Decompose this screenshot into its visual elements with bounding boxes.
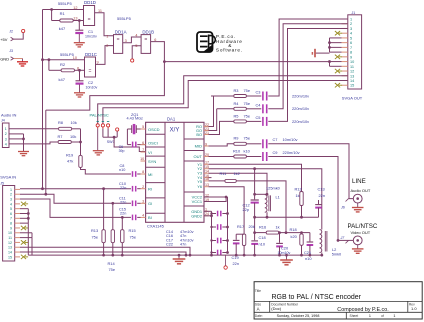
- wire VCC rows to cap rail: [204, 196, 228, 198]
- svg-text:BO: BO: [196, 132, 202, 137]
- inductor L2: [320, 230, 322, 253]
- svg-text:R14: R14: [108, 261, 116, 266]
- svg-text:10: 10: [140, 157, 144, 161]
- wire second vertical rail down to G row: [45, 110, 47, 194]
- svg-text:10: 10: [350, 60, 354, 64]
- capacitor C19: [236, 233, 244, 235]
- svg-text:220m/10v: 220m/10v: [283, 150, 300, 155]
- wire L2 bottom to ground rail: [321, 253, 323, 256]
- svg-text:2: 2: [350, 22, 352, 26]
- svg-text:4: 4: [350, 32, 352, 36]
- svg-text:5: 5: [10, 207, 12, 211]
- svg-text:14: 14: [350, 79, 354, 83]
- wire C7 to J6 audio out: [268, 144, 353, 199]
- svg-text:n10: n10: [305, 256, 312, 261]
- wire RO riser to R3 row: [209, 96, 214, 127]
- svg-text:RGB to PAL / NTSC encoder: RGB to PAL / NTSC encoder: [272, 294, 362, 301]
- svg-text:21: 21: [205, 131, 209, 135]
- svg-text:J4: J4: [1, 118, 5, 122]
- svg-text:1: 1: [10, 188, 12, 192]
- svg-text:R3: R3: [234, 88, 239, 93]
- wire Y3 to tank top: [209, 173, 268, 194]
- svg-text:Sheet: Sheet: [350, 314, 359, 318]
- J1 pin 5: [342, 37, 348, 39]
- svg-text:15: 15: [205, 165, 209, 169]
- J5 pin 4: [15, 203, 20, 205]
- svg-text:125mk0: 125mk0: [266, 185, 281, 190]
- wire J1 pin3 to C5 output: [268, 28, 348, 121]
- capacitor C12 tank: [254, 169, 256, 200]
- svg-text:4: 4: [142, 214, 144, 218]
- wire R4 row from riser: [217, 108, 234, 110]
- svg-text:1: 1: [393, 314, 395, 318]
- svg-text:Audio IN: Audio IN: [1, 112, 16, 117]
- tank bottom node row: [255, 216, 319, 218]
- svg-text:VCC1: VCC1: [192, 199, 202, 204]
- no-connect X on J1 pins 4 9 12 15: [335, 31, 340, 35]
- svg-text:R7: R7: [58, 134, 63, 139]
- svg-text:J3: J3: [9, 49, 13, 53]
- svg-text:GND: GND: [0, 56, 9, 61]
- wire Y2 to tank and L2: [209, 169, 322, 230]
- svg-text:PAL/NTSC: PAL/NTSC: [90, 113, 109, 118]
- bracket J1 pins 5-8: [329, 38, 331, 52]
- J5 pin 11: [15, 237, 20, 239]
- svg-text:R15: R15: [129, 228, 136, 233]
- svg-text:8: 8: [350, 51, 352, 55]
- svg-text:J6: J6: [340, 206, 345, 210]
- wire SW1 to VI pin: [114, 137, 146, 151]
- svg-text:J5: J5: [0, 181, 4, 185]
- svg-text:R10: R10: [233, 148, 241, 153]
- svg-text:5mk0: 5mk0: [332, 252, 342, 257]
- J5 pin 8: [15, 222, 20, 224]
- svg-text:Date:: Date:: [255, 314, 263, 318]
- svg-text:3: 3: [142, 200, 144, 204]
- J1 pin 3: [342, 27, 348, 29]
- svg-text:J2: J2: [9, 30, 13, 34]
- svg-text:L1: L1: [276, 195, 280, 200]
- svg-text:Software.: Software.: [216, 47, 243, 52]
- svg-text:5: 5: [135, 44, 137, 48]
- svg-text:7: 7: [142, 148, 144, 152]
- wire from DD1B.6 to J1 pins 10-11 bracket: [164, 61, 329, 63]
- svg-text:9: 9: [205, 142, 207, 146]
- svg-text:C7: C7: [273, 137, 278, 142]
- svg-text:22n: 22n: [120, 186, 126, 190]
- svg-text:C13: C13: [318, 186, 325, 191]
- wire Y1 to R12: [209, 164, 302, 191]
- svg-text:GND2: GND2: [191, 214, 202, 219]
- J1 pin 14: [342, 79, 348, 81]
- svg-text:C2: C2: [88, 80, 94, 85]
- svg-text:BI: BI: [148, 215, 152, 220]
- IC right pin numbers and stubs: [204, 126, 209, 128]
- svg-text:MI: MI: [148, 172, 152, 177]
- svg-text:+5V: +5V: [0, 37, 8, 42]
- pin 5 wire with open terminal: [132, 46, 141, 59]
- wire J4 pin1 to R8: [9, 128, 58, 130]
- svg-text:220m/10v: 220m/10v: [292, 119, 309, 124]
- svg-text:75e: 75e: [130, 234, 137, 239]
- J5 pin 9: [15, 227, 20, 229]
- svg-text:1: 1: [369, 314, 371, 318]
- svg-text:4: 4: [10, 202, 12, 206]
- svg-text:9: 9: [350, 55, 352, 59]
- svg-text:1k2: 1k2: [234, 171, 240, 176]
- svg-text:R12: R12: [295, 186, 302, 191]
- svg-text:10m/10v: 10m/10v: [283, 137, 298, 142]
- svg-text:SYN: SYN: [148, 159, 156, 164]
- svg-text:20: 20: [205, 153, 209, 157]
- J1 pin 6: [342, 42, 348, 44]
- wire J4 pin4 to R7: [9, 142, 58, 144]
- svg-text:6: 6: [154, 38, 156, 42]
- capacitor C18: [254, 233, 256, 241]
- svg-text:2: 2: [5, 132, 7, 136]
- svg-text:GI: GI: [148, 201, 152, 206]
- svg-text:R4: R4: [234, 101, 240, 106]
- svg-text:10: 10: [8, 231, 12, 235]
- svg-text:C18: C18: [259, 235, 266, 240]
- wire R3 row from riser: [211, 95, 234, 97]
- ground under C2: [79, 85, 81, 93]
- svg-text:5: 5: [142, 125, 144, 129]
- svg-text:LINE: LINE: [352, 178, 366, 185]
- ground symbol at J3: [22, 59, 24, 62]
- ground under J7: [357, 245, 359, 249]
- svg-text:3: 3: [5, 137, 7, 141]
- svg-text:C1: C1: [88, 29, 94, 34]
- pin 9 wire from DD1C to DD1A pin 2: [96, 46, 114, 65]
- svg-text:7: 7: [10, 217, 12, 221]
- svg-text:1k: 1k: [276, 225, 280, 230]
- wire GO riser to R4 row: [209, 109, 217, 131]
- svg-text:k47: k47: [59, 26, 66, 31]
- wire crystal to OSCD: [136, 128, 146, 130]
- J5 pin 10: [15, 232, 20, 234]
- svg-text:10k: 10k: [71, 120, 77, 125]
- J1 pin 10: [342, 61, 348, 63]
- svg-text:k47: k47: [59, 77, 66, 82]
- wire C9 to J7 video node: [268, 157, 338, 241]
- svg-text:=: =: [89, 69, 92, 75]
- svg-text:9: 9: [10, 226, 12, 230]
- svg-text:15: 15: [350, 84, 354, 88]
- svg-text:13: 13: [73, 17, 77, 21]
- J1 pin 4: [342, 32, 348, 34]
- J5 pin 6: [15, 213, 20, 215]
- svg-text:3: 3: [125, 39, 127, 43]
- bracket J5 pins 10-11: [31, 233, 33, 238]
- svg-text:555LP5: 555LP5: [58, 1, 73, 6]
- svg-text:R19: R19: [66, 153, 73, 158]
- svg-text:DD1C: DD1C: [85, 52, 97, 57]
- svg-text:OSCI: OSCI: [148, 140, 158, 145]
- svg-text:12: 12: [350, 70, 354, 74]
- decoupling caps row: [212, 213, 217, 215]
- bracket J5 pins 5-8: [27, 209, 29, 223]
- svg-text:12: 12: [73, 6, 77, 10]
- svg-text:Composed by P.E.co.: Composed by P.E.co.: [337, 307, 388, 313]
- J1 pin 9: [342, 56, 348, 58]
- svg-text:RI: RI: [148, 186, 152, 191]
- wire J5 pin3 B signal to C15: [20, 199, 131, 217]
- svg-text:DD1A: DD1A: [115, 30, 127, 35]
- svg-text:18: 18: [205, 177, 209, 181]
- J1 pin 8: [342, 51, 348, 53]
- svg-text:1.0: 1.0: [411, 306, 417, 311]
- svg-text:10n10v: 10n10v: [86, 86, 98, 90]
- ground under J6: [357, 203, 359, 207]
- wire J1 pin1 to C3 output: [268, 19, 348, 96]
- svg-text:14: 14: [205, 170, 209, 174]
- svg-text:DD1B: DD1B: [142, 30, 154, 35]
- svg-text:C5: C5: [256, 115, 261, 120]
- svg-text:Audio OUT: Audio OUT: [351, 188, 371, 193]
- logo P.E.co: [197, 32, 215, 52]
- svg-text:Sunday, October 25, 1998: Sunday, October 25, 1998: [277, 314, 320, 318]
- J1 pin 7: [342, 46, 348, 48]
- open terminal bottom: [224, 266, 227, 269]
- svg-text:J1: J1: [352, 11, 356, 15]
- svg-text:10: 10: [73, 56, 77, 60]
- svg-text:VI: VI: [148, 150, 152, 155]
- ground under C1: [78, 34, 80, 43]
- no-connect X on J5 pins 4 9 12 15: [21, 202, 26, 206]
- svg-text:8: 8: [10, 222, 12, 226]
- wire crystal left rail: [126, 129, 128, 145]
- J5 pin 13: [15, 246, 20, 248]
- wire audio junction: [80, 129, 82, 156]
- ground under SW1: [97, 129, 99, 151]
- svg-text:1: 1: [350, 18, 352, 22]
- svg-text:75e: 75e: [244, 88, 251, 93]
- svg-text:R13: R13: [91, 228, 98, 233]
- svg-text:2: 2: [142, 185, 144, 189]
- svg-text:47k: 47k: [67, 159, 73, 164]
- stub Y4: [209, 177, 212, 179]
- ground rotated at J1 bracket: [316, 52, 330, 54]
- svg-text:555LP5: 555LP5: [117, 16, 132, 21]
- svg-text:C9: C9: [273, 150, 278, 155]
- pin 3 wire DD1A out to DD1B pin 4: [123, 37, 141, 43]
- J5 pin 2: [15, 193, 20, 195]
- wire +5V rail from J2 area down to R row: [42, 10, 44, 189]
- wire J5 pin13 to rail: [20, 247, 190, 255]
- svg-text:3: 3: [10, 197, 12, 201]
- svg-text:SVGA IN: SVGA IN: [0, 174, 16, 179]
- svg-text:15: 15: [8, 255, 12, 259]
- wire J5 pin1 R signal to C10: [20, 188, 131, 190]
- wire J1 pin13 to SW1: [98, 76, 348, 124]
- svg-text:=: =: [117, 37, 120, 43]
- capacitor C21: [302, 232, 310, 234]
- svg-text:75e: 75e: [244, 136, 251, 141]
- wire GND rows to rail: [204, 210, 212, 212]
- svg-text:1: 1: [5, 127, 7, 131]
- svg-text:13: 13: [8, 246, 12, 250]
- svg-text:k20: k20: [291, 234, 298, 239]
- svg-text:CXA1145: CXA1145: [147, 224, 165, 229]
- svg-text:=: =: [144, 37, 147, 43]
- wire J5 pin14 to rail: [20, 252, 186, 255]
- svg-text:13: 13: [205, 183, 209, 187]
- svg-text:n10: n10: [119, 168, 125, 172]
- svg-text:R2: R2: [60, 62, 66, 67]
- wire R11 to R16 row: [236, 181, 286, 233]
- svg-text:22n: 22n: [120, 212, 126, 216]
- ground symbol right rail: [286, 255, 288, 260]
- svg-text:47n: 47n: [180, 243, 186, 247]
- svg-text:C22: C22: [166, 243, 173, 247]
- svg-text:5: 5: [350, 36, 352, 40]
- J1 pin 12: [342, 70, 348, 72]
- svg-text:10n10v: 10n10v: [85, 34, 97, 38]
- svg-text:R11: R11: [220, 171, 227, 176]
- svg-text:of: of: [381, 314, 384, 318]
- J5 pin 15: [15, 256, 20, 258]
- resistor R14 terminator: [112, 203, 114, 255]
- svg-text:(Doc): (Doc): [271, 306, 281, 311]
- svg-text:=: =: [88, 17, 91, 23]
- bracket J1 pins 10-11: [329, 62, 331, 67]
- title block: [254, 282, 422, 319]
- svg-text:R1: R1: [60, 11, 66, 16]
- svg-text:R8: R8: [58, 120, 63, 125]
- J5 pin 1: [15, 188, 20, 190]
- svg-text:20k: 20k: [249, 224, 255, 229]
- svg-text:SVGA OUT: SVGA OUT: [342, 96, 363, 101]
- IC left cell dividers: [146, 133, 165, 135]
- J1 pin 2: [342, 23, 348, 25]
- J1 pin 13: [342, 75, 348, 77]
- svg-text:OSCD: OSCD: [148, 127, 160, 132]
- pin 13 wire into DD1D: [73, 20, 83, 22]
- wire MID to R9: [209, 144, 234, 146]
- svg-text:6: 6: [10, 212, 12, 216]
- svg-text:11: 11: [98, 9, 102, 13]
- svg-text:4: 4: [135, 33, 137, 37]
- wire R19 to C8: [81, 167, 132, 174]
- svg-text:75e: 75e: [92, 234, 99, 239]
- svg-text:9: 9: [97, 60, 99, 64]
- IC right cell dividers: [184, 138, 204, 140]
- pin 11 wire from DD1D to DD1A pin 1: [95, 13, 114, 36]
- ground rail bottom: [28, 254, 322, 256]
- J5 pin 12: [15, 241, 20, 243]
- svg-text:6: 6: [350, 41, 352, 45]
- J1 pin 1: [342, 18, 348, 20]
- svg-text:10k: 10k: [70, 134, 76, 139]
- svg-text:4.43 MGz: 4.43 MGz: [127, 116, 144, 120]
- svg-text:220m/10v: 220m/10v: [292, 93, 309, 98]
- svg-text:Video OUT: Video OUT: [351, 230, 371, 235]
- J1 pin 11: [342, 65, 348, 67]
- svg-text:75e: 75e: [109, 267, 116, 272]
- svg-text:X/Y: X/Y: [170, 128, 180, 134]
- pin 8 wire into DD1C: [75, 69, 85, 71]
- svg-text:R17: R17: [237, 224, 244, 229]
- svg-text:C20: C20: [281, 246, 289, 251]
- svg-text:Y6: Y6: [197, 184, 202, 189]
- svg-text:DA1: DA1: [167, 116, 176, 121]
- svg-text:7: 7: [350, 46, 352, 50]
- wire video node to J7: [338, 239, 353, 241]
- svg-text:3: 3: [350, 27, 352, 31]
- wire OUT to R10: [209, 156, 234, 158]
- svg-text:12: 12: [8, 241, 12, 245]
- svg-text:R16: R16: [259, 225, 266, 230]
- svg-text:R9: R9: [234, 136, 239, 141]
- svg-text:R18: R18: [290, 227, 297, 232]
- capacitor C20 electrolytic: [279, 233, 281, 243]
- svg-text:11: 11: [8, 236, 12, 240]
- svg-text:4: 4: [5, 142, 7, 146]
- J5 pin 5: [15, 208, 20, 210]
- svg-text:OUT: OUT: [194, 154, 203, 159]
- J1 pin 15: [342, 84, 348, 86]
- wire J1 pin14 to SW1: [103, 80, 348, 123]
- svg-text:SW1: SW1: [107, 140, 115, 144]
- ground symbol mid rail: [178, 255, 180, 259]
- wire J5 pin2 G signal to C11: [20, 194, 131, 203]
- svg-text:17: 17: [205, 161, 209, 165]
- capacitor C2: [79, 70, 81, 80]
- resistor R11 on Y5: [209, 180, 225, 182]
- svg-text:PAL/NTSC: PAL/NTSC: [348, 223, 378, 230]
- svg-text:k10: k10: [244, 148, 251, 153]
- capacitor C1: [78, 21, 80, 31]
- wire Y6 riser to R17: [209, 187, 245, 235]
- wire BO riser to R5 row: [209, 121, 234, 134]
- switch SW1 common terminal: [116, 128, 119, 131]
- svg-text:n10: n10: [259, 241, 266, 246]
- pin 6 output wire of DD1B down and left: [46, 42, 165, 111]
- svg-text:22n: 22n: [120, 201, 126, 205]
- svg-text:14: 14: [8, 250, 12, 254]
- pin 12 wire into DD1D: [43, 9, 84, 11]
- svg-text:MID: MID: [195, 144, 202, 149]
- svg-text:39p: 39p: [119, 149, 125, 153]
- wire J1 pin2 to C4 output: [268, 24, 348, 109]
- wire J4 pins 2 3 to ground: [9, 133, 24, 135]
- svg-text:2: 2: [10, 193, 12, 197]
- svg-text:22n: 22n: [319, 193, 326, 198]
- svg-text:8: 8: [142, 170, 144, 174]
- svg-text:22p: 22p: [243, 207, 250, 212]
- svg-text:1: 1: [106, 34, 108, 38]
- svg-text:Title: Title: [255, 289, 261, 293]
- svg-text:Y5: Y5: [197, 179, 202, 184]
- svg-text:75e: 75e: [244, 101, 251, 106]
- wire SW1 poles: [102, 129, 104, 138]
- IC left pin numbers and stubs: [141, 128, 146, 130]
- svg-text:22n: 22n: [233, 261, 240, 266]
- svg-text:13: 13: [350, 74, 354, 78]
- J5 pin 14: [15, 251, 20, 253]
- svg-text:C19: C19: [232, 255, 239, 260]
- J5 pin 3: [15, 198, 20, 200]
- svg-text:C3: C3: [256, 90, 261, 95]
- svg-text:75e: 75e: [244, 113, 251, 118]
- svg-text:C4: C4: [256, 102, 262, 107]
- svg-text:11: 11: [350, 65, 354, 69]
- pin 10 wire into DD1C: [43, 59, 85, 61]
- svg-text:DD1D: DD1D: [84, 0, 96, 5]
- svg-text:220m/10v: 220m/10v: [292, 106, 309, 111]
- svg-text:6: 6: [142, 141, 144, 145]
